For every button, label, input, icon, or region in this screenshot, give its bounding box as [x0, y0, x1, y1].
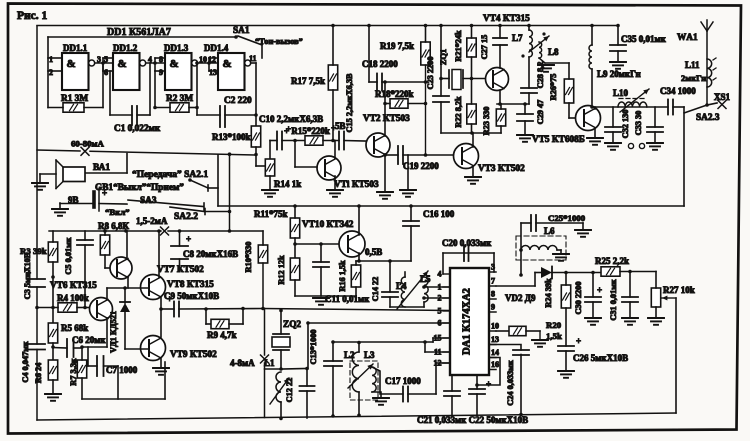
svg-text:R22 8,2k: R22 8,2k — [454, 96, 463, 128]
resistor R22 — [467, 104, 476, 124]
svg-text:DD1.4: DD1.4 — [204, 43, 229, 53]
inductor L10 — [618, 102, 647, 107]
transistor VT5 — [576, 106, 601, 131]
resistor R16 — [351, 265, 360, 287]
junction — [591, 271, 595, 275]
svg-text:L7: L7 — [512, 33, 523, 43]
wire R19 bottom column — [425, 65, 427, 155]
wire R2 left — [155, 107, 170, 109]
ground L6 — [553, 254, 569, 261]
wire crystal column — [440, 26, 442, 97]
svg-text:VТ8 КТ315: VТ8 КТ315 — [167, 280, 214, 290]
junction — [279, 309, 283, 313]
svg-text:3: 3 — [97, 55, 101, 64]
wire R6 bottom — [52, 380, 54, 394]
wire R8 bottom — [104, 255, 106, 268]
wire VT10 collector up — [358, 206, 360, 235]
wire R16 bottom — [355, 287, 357, 296]
svg-text:VТ9 КТ502: VТ9 КТ502 — [170, 350, 217, 360]
wire C30 top — [592, 273, 594, 298]
wire R18 left — [385, 103, 390, 105]
wire VT9 emitter — [160, 358, 162, 368]
wire R4 left — [37, 307, 58, 309]
junction — [305, 367, 309, 371]
junction — [103, 229, 107, 233]
contact SA2.2 — [204, 209, 206, 215]
wire C25 left — [521, 222, 531, 224]
wire pin1 stub — [48, 57, 62, 59]
node SA2.1 pivot — [188, 178, 192, 182]
junction — [178, 229, 182, 233]
svg-text:С15 2,2мкХ6,3В: С15 2,2мкХ6,3В — [345, 73, 354, 133]
svg-text:R21*24k: R21*24k — [454, 30, 463, 62]
speaker BA1 — [56, 160, 85, 189]
wire bus up right — [164, 362, 166, 399]
wire R21 top — [471, 26, 473, 39]
wire VT2 collector to C18 — [384, 82, 386, 104]
junction — [157, 229, 161, 233]
capacitor C26 — [558, 336, 581, 351]
capacitor C32 — [605, 127, 621, 132]
wire C7 right — [104, 365, 119, 367]
capacitor C28 — [521, 88, 537, 93]
svg-text:9: 9 — [159, 68, 163, 77]
resistor R21 — [467, 38, 476, 57]
wire — [594, 107, 596, 109]
junction — [470, 24, 474, 28]
svg-text:ХS1: ХS1 — [714, 92, 731, 102]
wire pin13 stub — [209, 70, 218, 72]
svg-text:С30 2200: С30 2200 — [574, 282, 583, 315]
junction — [439, 77, 443, 81]
wire L6 column — [520, 223, 522, 275]
capacitor C18 — [377, 74, 382, 91]
svg-text:С18 2200: С18 2200 — [362, 59, 398, 69]
inductor L7 — [529, 30, 532, 57]
svg-text:R12 12k: R12 12k — [277, 255, 286, 285]
svg-text:&: & — [223, 58, 232, 70]
wire speaker right — [85, 172, 127, 174]
capacitor C2 — [220, 106, 225, 127]
svg-text:L11: L11 — [685, 60, 700, 70]
wire — [229, 323, 243, 325]
wire battery plus — [99, 203, 127, 206]
junction — [306, 321, 310, 325]
resistor R14 — [265, 159, 274, 176]
svg-text:R25 2,2k: R25 2,2k — [595, 256, 629, 266]
svg-text:1,5-2мА: 1,5-2мА — [136, 216, 168, 226]
transistor VT7 — [110, 257, 132, 279]
wire C23 bottom — [440, 102, 442, 133]
svg-text:0,5В: 0,5В — [365, 247, 382, 257]
junction — [254, 153, 258, 157]
wire to pin2 — [424, 297, 450, 299]
capacitor C13 — [324, 361, 342, 366]
junction — [331, 340, 335, 344]
inductor L8 — [539, 42, 542, 58]
wire pin10 out — [496, 330, 509, 332]
wire VT2 collector up — [384, 104, 386, 137]
svg-text:R10*330: R10*330 — [244, 242, 253, 273]
ground R14 — [262, 190, 278, 197]
svg-text:60-80мА: 60-80мА — [71, 139, 105, 149]
junction — [498, 24, 502, 28]
wire IF filter bus — [333, 341, 433, 343]
ground C31 — [622, 318, 638, 325]
wire VT10 base — [295, 243, 340, 245]
NAND gate DD1.3 — [165, 53, 198, 90]
svg-text:SА2.2: SА2.2 — [174, 212, 198, 222]
wire L9 top — [591, 26, 593, 46]
svg-text:ZQ2: ZQ2 — [283, 320, 301, 330]
wire C16 top — [410, 206, 412, 221]
wire DD1.4 out down to R13 — [255, 63, 257, 126]
wire battery minus — [60, 203, 94, 205]
wire — [255, 155, 257, 166]
junction — [383, 80, 387, 84]
junction — [80, 345, 84, 349]
junction — [254, 113, 258, 117]
transistor VT9 — [141, 336, 166, 361]
resistor R17 — [328, 65, 337, 90]
capacitor C17 — [403, 387, 408, 402]
wire C12 top — [306, 369, 308, 387]
wire C29 bottom — [524, 121, 526, 135]
wire C6 right — [74, 347, 83, 349]
svg-text:С10 2,2мкХ6,3В: С10 2,2мкХ6,3В — [259, 114, 323, 124]
wire R22 top — [471, 79, 473, 105]
svg-text:С6 20мк: С6 20мк — [72, 335, 106, 345]
wire VT3 collector — [472, 133, 474, 147]
wire C2 left — [197, 114, 220, 116]
capacitor C5 — [77, 240, 93, 245]
svg-text:VТ5 КТ608Б: VТ5 КТ608Б — [532, 135, 585, 145]
wire L1 to rail — [280, 402, 282, 418]
svg-text:R16 1,5k: R16 1,5k — [338, 260, 347, 292]
svg-text:R5 68k: R5 68k — [61, 323, 88, 333]
svg-text:+: + — [167, 294, 172, 304]
svg-text:&: & — [170, 58, 179, 70]
ground near C19 — [400, 190, 416, 197]
junction — [228, 210, 232, 214]
wire R1 left — [48, 107, 63, 109]
svg-text:10: 10 — [199, 55, 207, 64]
svg-text:С13*1000: С13*1000 — [309, 329, 318, 364]
capacitor C15 — [331, 123, 344, 150]
wire pin6 drop — [307, 323, 309, 369]
svg-text:С34 1000: С34 1000 — [660, 86, 696, 96]
junction — [51, 275, 55, 279]
inductor L9 — [589, 45, 592, 69]
wire R18 right — [408, 103, 426, 105]
svg-text:&: & — [118, 58, 127, 70]
svg-text:C25*1000: C25*1000 — [548, 213, 586, 223]
wire VT7-VT8 base link — [107, 287, 149, 289]
junction — [422, 296, 426, 300]
wire VT6 emitter — [106, 318, 108, 347]
resistor R6 — [48, 360, 57, 380]
wire C32 bottom — [612, 132, 614, 143]
wire VT1 base drop — [294, 141, 296, 168]
svg-text:13: 13 — [209, 68, 217, 77]
svg-text:ZQ1: ZQ1 — [439, 49, 448, 65]
wire R27 bottom — [655, 307, 657, 318]
wire RF output bus — [592, 106, 668, 108]
svg-text:7: 7 — [491, 277, 495, 286]
wire L6 right — [557, 249, 561, 251]
wire C16 bottom — [410, 226, 412, 261]
svg-text:С20 0,033мк: С20 0,033мк — [442, 238, 492, 248]
wire C1 left vertical — [109, 71, 111, 115]
svg-text:С23 2200: С23 2200 — [426, 57, 435, 90]
inductor L3 — [372, 367, 376, 392]
wire C31 bottom — [629, 302, 631, 318]
wire pin11 to filter bus — [424, 342, 426, 352]
svg-text:VД1 КД521: VД1 КД521 — [109, 311, 118, 353]
wire ZQ2 bottom — [280, 350, 282, 369]
NAND gate DD1.2 — [113, 53, 146, 90]
winding polarity dots — [521, 54, 524, 57]
junction — [331, 139, 335, 143]
ground C11 — [313, 298, 329, 305]
svg-text:4-8мА: 4-8мА — [230, 358, 255, 368]
wire SA2.1 to column — [208, 187, 218, 189]
switch SA2.1 arm — [190, 180, 208, 188]
pin 7 — [489, 277, 496, 287]
resistor R23 — [496, 109, 505, 126]
svg-text:R4 100k: R4 100k — [57, 293, 89, 303]
junction — [319, 242, 323, 246]
pin 1 — [438, 283, 451, 292]
wire pin15 — [433, 337, 450, 339]
ground L8 — [538, 65, 554, 72]
wire L3 to ground — [372, 392, 381, 398]
pin 6 — [438, 319, 451, 328]
wire R26 top — [568, 63, 570, 79]
svg-text:DD1.2: DD1.2 — [113, 43, 138, 53]
wire C27 bottom / VT4 collector — [499, 45, 501, 68]
wire R5-R6 link — [52, 343, 54, 360]
capacitor C29 — [517, 114, 533, 121]
resistor R10 — [258, 245, 267, 263]
wire 4-8mA column — [264, 309, 266, 356]
wire R3 top — [52, 231, 54, 242]
ground VT5 — [587, 138, 603, 145]
wire C33 top — [654, 107, 656, 127]
arrow R27 wiper — [662, 296, 676, 301]
wire C15 to VT2 base — [344, 140, 366, 143]
junction — [383, 153, 387, 157]
resistor R15 — [305, 136, 323, 145]
svg-text:“Передача” SА2.1: “Передача” SА2.1 — [132, 169, 208, 180]
junction — [331, 414, 335, 418]
wire C7 down — [117, 366, 119, 399]
top supply rail — [37, 25, 618, 27]
pin 9 — [489, 303, 496, 313]
wire C35 bottom — [617, 51, 619, 62]
svg-text:VТi КТ503: VТi КТ503 — [334, 180, 379, 190]
svg-text:С24 0,033мк: С24 0,033мк — [506, 360, 515, 406]
wire — [206, 323, 211, 325]
wire VT8 emitter / VT9 collector column — [160, 297, 162, 337]
diode VD1 — [120, 302, 130, 312]
wire VT7 base — [105, 267, 110, 269]
ground C32 — [605, 143, 621, 150]
switch SA1 arm — [238, 36, 262, 45]
resistor R4 — [58, 303, 77, 312]
wire C8 bottom — [179, 259, 181, 271]
svg-text:С12 22: С12 22 — [285, 378, 294, 403]
resistor R25 — [601, 267, 620, 276]
wire L4 top stub — [404, 272, 406, 277]
svg-text:С16 100: С16 100 — [423, 209, 455, 219]
resistor R11 — [290, 218, 299, 238]
switch SA2.2 arm — [170, 207, 204, 212]
resistor R8 — [100, 235, 109, 255]
junction — [590, 24, 594, 28]
wire pin12 stub — [209, 57, 218, 59]
wire L7 bottom to C28 — [528, 57, 530, 88]
resistor R1 — [63, 103, 84, 112]
wire SA2.2 out — [205, 211, 230, 213]
svg-text:13: 13 — [491, 335, 499, 344]
wire — [384, 154, 386, 155]
junction — [204, 307, 208, 311]
svg-text:R26*75: R26*75 — [549, 74, 558, 101]
svg-text:+: + — [186, 234, 191, 244]
wire pin11 — [425, 351, 450, 353]
wire L2 bottom to rail — [358, 392, 360, 415]
wire pin3 up — [493, 253, 495, 272]
wire R25 right — [620, 271, 656, 273]
junction — [424, 80, 428, 84]
wire VD1 bottom — [124, 312, 126, 349]
pin 16 — [489, 360, 499, 370]
junction — [519, 413, 523, 417]
wire VT5 base — [569, 117, 577, 119]
wire to XS1 — [707, 103, 717, 105]
ground speaker — [32, 183, 48, 190]
capacitor C31 — [622, 297, 638, 302]
wire C19 left — [385, 154, 398, 156]
svg-text:VD2 Д9: VD2 Д9 — [505, 293, 536, 303]
wire DD1.3 out to DD1.4 — [198, 62, 218, 64]
svg-text:+: + — [597, 285, 602, 295]
resistor R19 — [421, 42, 430, 65]
antenna WA1 — [706, 31, 708, 105]
wire to speaker — [126, 154, 128, 173]
wire left input column — [47, 37, 49, 108]
wire C30 bottom — [592, 302, 594, 318]
wire R11 top — [294, 206, 296, 218]
pin 12 — [434, 359, 451, 368]
junction — [101, 61, 105, 65]
wire VT1 emitter — [334, 176, 336, 190]
potentiometer R27 — [651, 288, 660, 307]
wire tie DD1.4 inputs — [208, 58, 210, 71]
battery GB1 — [94, 188, 107, 211]
wire R2 left vertical — [154, 71, 156, 108]
wire C13 bottom — [332, 366, 334, 416]
junction — [628, 270, 632, 274]
junction — [228, 229, 232, 233]
transistor VT6 — [90, 298, 113, 321]
svg-text:R17 7,5k: R17 7,5k — [291, 76, 325, 86]
wire VT7 emitter — [127, 277, 129, 288]
wire L8 to R26 — [545, 62, 569, 64]
node SA1 pivot — [234, 35, 238, 39]
wire emitter node 0.5V — [356, 260, 411, 262]
wire VT5 emitter — [594, 128, 596, 138]
svg-text:5В: 5В — [335, 121, 346, 131]
capacitor C34 — [668, 100, 673, 115]
wire C9 left — [161, 308, 174, 310]
capacitor C1 — [132, 106, 137, 125]
pin 2 — [438, 294, 451, 303]
svg-text:&: & — [67, 58, 76, 70]
wire L5 bottom — [423, 302, 425, 307]
wire R7 top — [81, 347, 83, 360]
junction — [470, 131, 474, 135]
pin 3 — [489, 263, 496, 273]
svg-text:1: 1 — [49, 55, 53, 64]
wire C29 top — [524, 104, 526, 114]
wire C21 top — [451, 375, 453, 391]
wire VT9 base — [125, 348, 149, 350]
break 1.5-2mA measuring point — [161, 227, 169, 235]
svg-text:VТ4 КТ315: VТ4 КТ315 — [483, 14, 530, 24]
capacitor C30 — [585, 285, 602, 302]
svg-text:L10: L10 — [613, 88, 629, 98]
wire ZQ1 left — [441, 78, 449, 80]
capacitor C19 — [398, 146, 403, 164]
svg-text:L1: L1 — [264, 358, 275, 368]
junction — [423, 340, 427, 344]
junction — [159, 307, 163, 311]
wire RX signal rail — [218, 205, 684, 207]
junction — [424, 102, 428, 106]
wire VT3 emitter — [472, 166, 474, 177]
wire C11 top — [320, 244, 322, 262]
capacitor C12 — [300, 386, 315, 391]
wire — [59, 203, 61, 209]
junction — [590, 105, 594, 109]
svg-text:С1 0,022мк: С1 0,022мк — [114, 124, 161, 134]
svg-text:L8: L8 — [548, 47, 559, 57]
junction — [279, 417, 283, 421]
svg-text:С26 5мкХ10В: С26 5мкХ10В — [573, 353, 628, 363]
wire R17 bottom — [332, 90, 334, 141]
wire pin7 out — [496, 285, 535, 287]
wire R26 bottom — [568, 103, 570, 118]
wire L9 bottom — [591, 69, 593, 107]
svg-text:12: 12 — [208, 55, 216, 64]
svg-text:8: 8 — [159, 55, 163, 64]
wire C21 bottom — [451, 396, 453, 416]
capacitor C10 — [277, 124, 291, 150]
svg-text:R23 330: R23 330 — [482, 107, 491, 136]
junction — [422, 285, 426, 289]
capacitor C20 — [464, 246, 469, 261]
resistor R12 — [290, 258, 299, 280]
ground VT9 — [153, 368, 169, 375]
wire VT10 emitter — [358, 253, 360, 261]
break 60-80mA measuring point — [81, 147, 89, 155]
wire C10 left — [270, 140, 277, 142]
ground C25 — [575, 230, 591, 237]
svg-text:GВ1“Выкл”“Прием”: GВ1“Выкл”“Прием” — [95, 182, 184, 193]
svg-text:VТ7 КТ502: VТ7 КТ502 — [157, 265, 204, 275]
